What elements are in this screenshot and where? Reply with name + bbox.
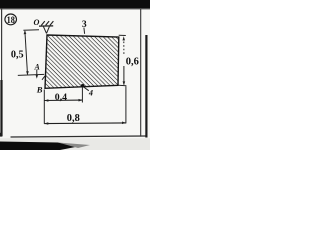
support hatch ticks bbox=[41, 21, 45, 25]
svg-text:4: 4 bbox=[88, 89, 93, 98]
svg-text:0,8: 0,8 bbox=[67, 113, 80, 124]
dimension line 0,8 bbox=[44, 122, 126, 125]
A pointer arrow bbox=[36, 70, 38, 78]
svg-text:0,4: 0,4 bbox=[55, 92, 67, 103]
bottom box border bbox=[11, 136, 147, 137]
right box border bbox=[140, 9, 142, 137]
svg-text:O: O bbox=[34, 18, 40, 27]
svg-text:0,5: 0,5 bbox=[11, 49, 24, 60]
dotted upper shaft bbox=[123, 42, 125, 56]
support line at O bbox=[39, 25, 53, 27]
A-level extension line bbox=[18, 74, 44, 75]
solid lower shaft + bottom arrow bbox=[123, 66, 125, 85]
grey strip under bottom border bbox=[0, 138, 150, 150]
right top extension line bbox=[119, 34, 126, 36]
problem number circle 18 bbox=[5, 14, 17, 25]
right scan bar bbox=[145, 35, 147, 138]
svg-text:B: B bbox=[36, 84, 43, 94]
small tick near plate edge bbox=[42, 76, 45, 80]
svg-text:18: 18 bbox=[7, 16, 15, 26]
dot leader line bbox=[84, 87, 89, 91]
plate (hatched rectangle) bbox=[45, 35, 119, 88]
left box border bbox=[1, 8, 3, 80]
top-left extension line under O bbox=[23, 29, 39, 32]
support V to plate corner bbox=[43, 27, 46, 34]
BL corner vertical extension bbox=[43, 90, 45, 124]
right bottom extension line bbox=[118, 84, 126, 87]
svg-text:0,6: 0,6 bbox=[126, 56, 139, 67]
top black scan band bbox=[0, 0, 150, 8]
left dimension line 0,5 bbox=[25, 31, 28, 74]
dimension line 0,4 bbox=[44, 99, 82, 101]
bottom-left black scan wedge bbox=[0, 142, 78, 151]
dot vertical extension bbox=[81, 88, 83, 103]
centre dot on bottom edge bbox=[81, 84, 85, 88]
right lower vertical extension bbox=[125, 86, 127, 123]
right dimension line 0,6 : top arrow bbox=[123, 36, 126, 40]
